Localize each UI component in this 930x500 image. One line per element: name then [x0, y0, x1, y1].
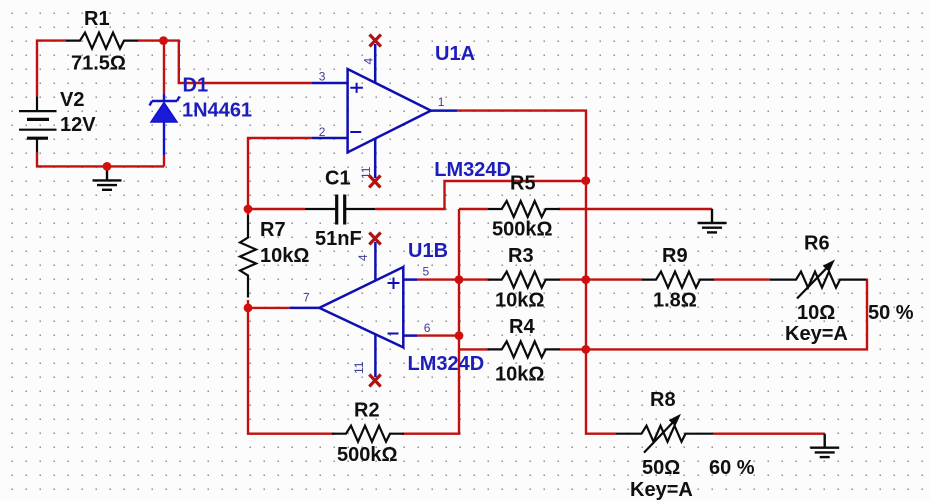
svg-text:500kΩ: 500kΩ — [492, 219, 553, 241]
svg-text:U1A: U1A — [435, 43, 475, 65]
svg-text:LM324D: LM324D — [408, 353, 485, 375]
svg-text:R1: R1 — [84, 8, 110, 30]
potentiometer R6 — [770, 272, 866, 288]
ground at battery rail — [93, 166, 122, 189]
wire: node B short stub into R7 top — [247, 209, 249, 215]
svg-text:2: 2 — [319, 125, 326, 139]
ground at R5 — [698, 209, 727, 232]
wire: U1B pin 6 to column node — [417, 334, 459, 336]
svg-text:R3: R3 — [508, 245, 534, 267]
wire: U1A pin 2 left then down to node B — [248, 138, 312, 209]
svg-text:12V: 12V — [60, 114, 96, 136]
svg-text:50 %: 50 % — [868, 302, 914, 324]
svg-text:LM324D: LM324D — [434, 159, 511, 181]
wire: R5 left corner to R5 lead — [459, 208, 488, 210]
svg-text:3: 3 — [319, 70, 326, 84]
no-connect X on U1B pin 4 — [369, 233, 380, 245]
svg-text:R7: R7 — [260, 219, 286, 241]
wire: node A jog down to U1A pin 3 — [164, 41, 313, 83]
svg-text:4: 4 — [362, 58, 376, 65]
no-connect X on U1B pin 11 — [369, 375, 380, 387]
op-amp U1B (mirrored) — [290, 242, 417, 377]
svg-text:71.5Ω: 71.5Ω — [71, 53, 126, 75]
junction node E (R3/R9 column) — [581, 275, 590, 284]
svg-text:7: 7 — [303, 291, 310, 305]
no-connect X on U1A pin 4 — [370, 35, 381, 47]
svg-text:D1: D1 — [183, 75, 209, 97]
junction node C (U1A out/C1) — [581, 176, 590, 185]
wiper arrow R6 — [797, 269, 826, 299]
svg-text:R6: R6 — [804, 233, 830, 255]
svg-text:4: 4 — [356, 254, 370, 261]
resistor R7 (vertical) — [240, 215, 256, 298]
svg-text:500kΩ: 500kΩ — [337, 444, 398, 466]
svg-text:11: 11 — [359, 166, 373, 179]
svg-text:R5: R5 — [510, 173, 536, 195]
svg-text:1: 1 — [438, 95, 445, 109]
wire: U1B pin 5 to column node — [417, 278, 459, 280]
resistor R5 — [488, 201, 560, 217]
svg-text:U1B: U1B — [408, 240, 448, 262]
junction node A (R1/D1) — [159, 36, 168, 45]
ground at R8 — [810, 434, 839, 457]
svg-text:60 %: 60 % — [709, 457, 755, 479]
resistor R2 — [332, 426, 404, 442]
wire: D1 anode down to bottom rail — [163, 155, 165, 166]
resistor R1 — [66, 33, 138, 49]
resistor R9 — [642, 272, 714, 288]
svg-text:6: 6 — [424, 321, 431, 335]
junction node B (pin2/C1/R7) — [244, 205, 253, 214]
svg-text:10kΩ: 10kΩ — [495, 290, 544, 312]
svg-text:10kΩ: 10kΩ — [260, 245, 309, 267]
battery V2 — [19, 96, 57, 152]
wire: U1B pin 7 output to node D — [248, 307, 290, 309]
resistor R3 — [488, 272, 560, 288]
wire: R5 right lead to ground — [559, 208, 713, 210]
svg-text:Key=A: Key=A — [630, 479, 693, 500]
junction node pin6/R4 column — [455, 331, 464, 340]
junction node pin5/R3/R5 column — [455, 275, 464, 284]
wire: R7 bottom to node D, down to R2 left — [248, 300, 334, 434]
resistor R4 — [488, 341, 560, 357]
wire: node to R3 left lead — [459, 278, 489, 280]
svg-text:1.8Ω: 1.8Ω — [653, 290, 697, 312]
capacitor C1 — [305, 195, 375, 225]
op-amp U1A — [312, 44, 457, 178]
wire: R1 right to node A — [138, 39, 164, 41]
svg-text:C1: C1 — [325, 168, 351, 190]
svg-text:51nF: 51nF — [315, 228, 362, 250]
wire: battery V2 plus to R1 left — [37, 41, 66, 97]
wire: bottom rail battery minus to D1, through ground node — [37, 152, 164, 166]
svg-text:R8: R8 — [650, 389, 676, 411]
svg-text:R2: R2 — [354, 400, 380, 422]
svg-text:10Ω: 10Ω — [797, 302, 835, 324]
svg-text:R9: R9 — [662, 245, 688, 267]
junction node F (R4/R6/R8 column) — [581, 345, 590, 354]
svg-text:5: 5 — [423, 265, 430, 279]
svg-text:1N4461: 1N4461 — [182, 100, 252, 122]
wire: node A down to D1 cathode — [163, 41, 165, 94]
wire: R9 right to R6 left — [714, 278, 771, 280]
junction node at ground rail — [103, 162, 112, 171]
wire: R3 right to node E and on to R9 left — [559, 278, 643, 280]
wire: U1A output right then down column to R8 row — [457, 111, 615, 434]
wire: R2 right up column to R5 left corner — [402, 209, 459, 434]
junction node D (R7/pin7/R2) — [244, 304, 253, 313]
svg-text:11: 11 — [352, 361, 366, 374]
wire: node B to C1 left plate — [248, 208, 305, 210]
svg-text:Key=A: Key=A — [785, 323, 848, 345]
wire: R8 right lead to ground — [713, 433, 825, 435]
potentiometer R8 — [615, 426, 713, 442]
wire: column node to R4 left lead — [459, 348, 489, 350]
zener diode D1 — [150, 94, 180, 155]
wiper arrow R8 — [644, 423, 673, 453]
svg-text:V2: V2 — [60, 89, 84, 111]
svg-text:R4: R4 — [509, 316, 535, 338]
svg-text:10kΩ: 10kΩ — [495, 364, 544, 386]
no-connect X on U1A pin 11 — [369, 176, 380, 188]
wire: R6 right corner down to R4 row, back to node F — [559, 279, 868, 350]
svg-text:50Ω: 50Ω — [642, 457, 680, 479]
wire: C1 right plate jog up to node C row — [375, 181, 586, 209]
